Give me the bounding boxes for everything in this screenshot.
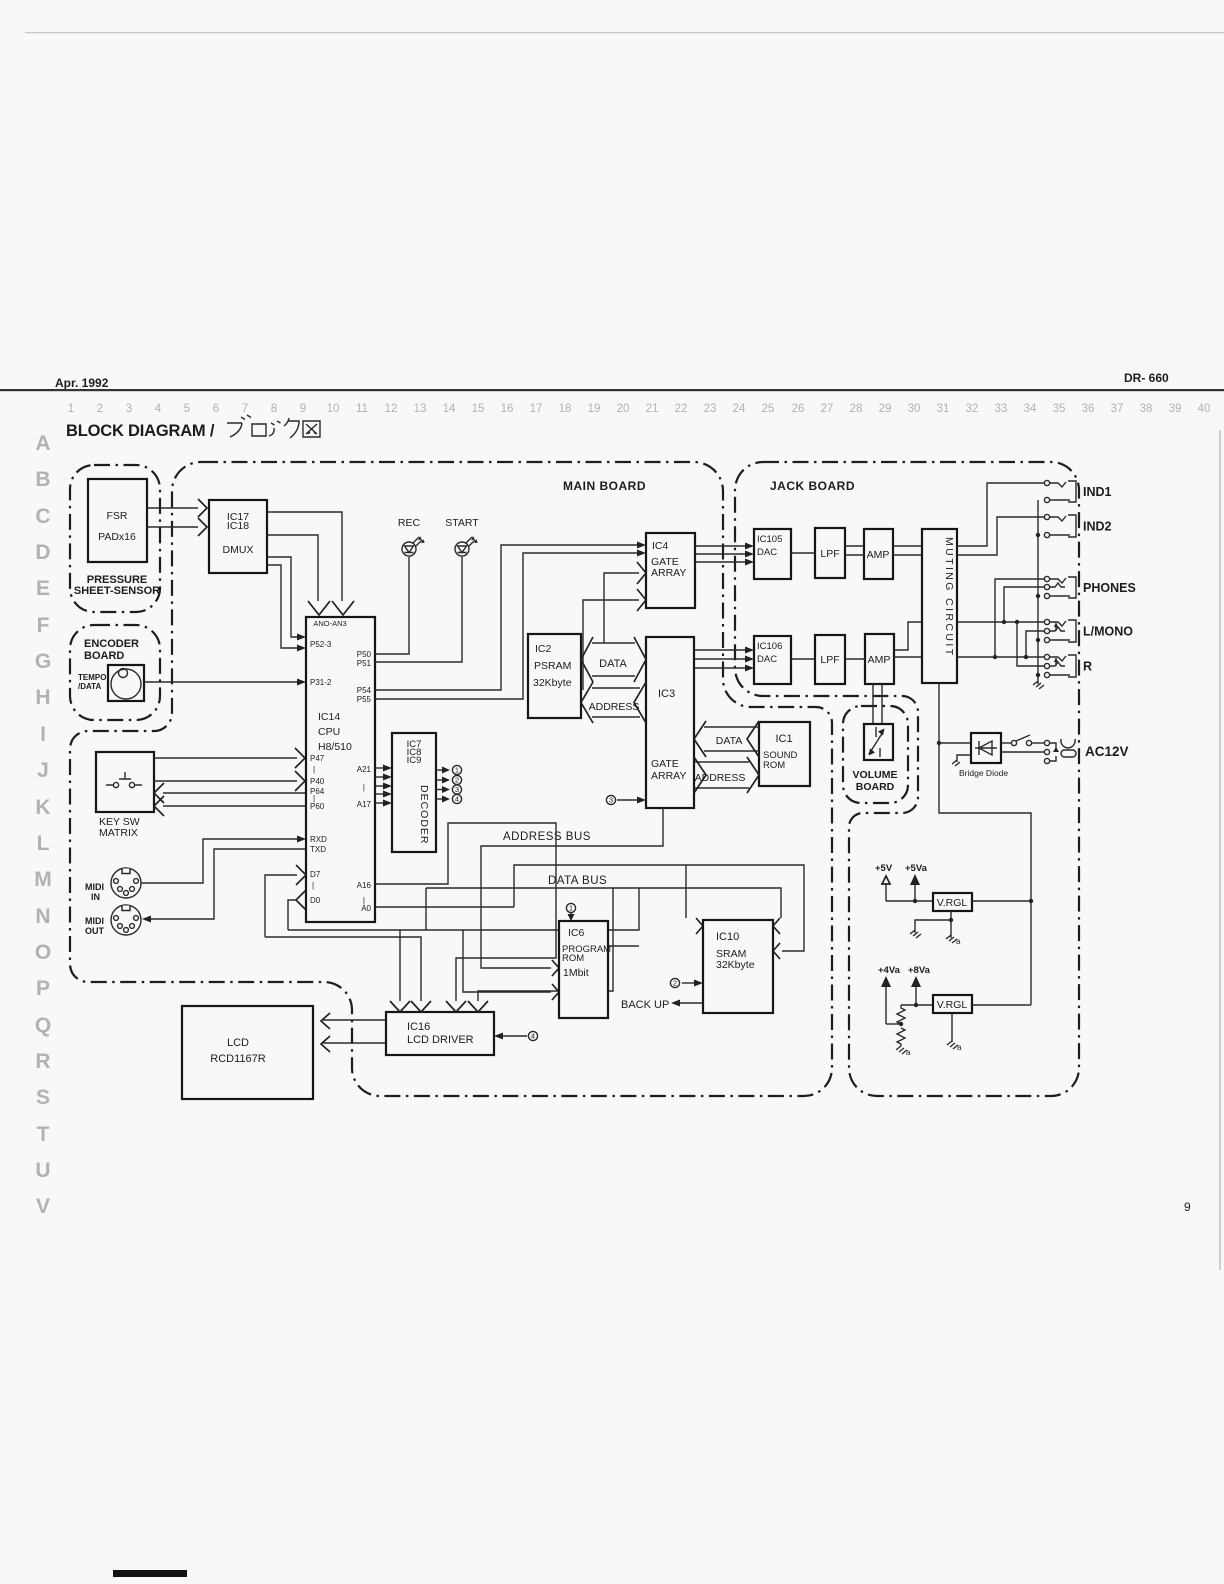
svg-text:35: 35 bbox=[1053, 403, 1066, 415]
wire IC106 to LPF lower bbox=[791, 658, 815, 660]
CPU IC14 H8/510 box bbox=[306, 617, 375, 922]
wire KEYSW to CPU P40 bbox=[154, 780, 297, 782]
AMP lower box bbox=[865, 634, 894, 684]
MUTING CIRCUIT box bbox=[922, 529, 957, 683]
svg-text:IN: IN bbox=[91, 892, 100, 902]
wires AMP lower to volume pot bbox=[873, 684, 882, 724]
svg-text:9: 9 bbox=[1184, 1200, 1191, 1214]
svg-text:ROM: ROM bbox=[562, 953, 584, 964]
board VOLUME BOARD outline bbox=[843, 706, 908, 803]
svg-text:G: G bbox=[35, 650, 51, 673]
svg-text:A16: A16 bbox=[357, 881, 372, 890]
svg-text:ADDRESS BUS: ADDRESS BUS bbox=[503, 831, 591, 843]
wire VRGL1 to AC bus bbox=[972, 900, 1031, 902]
hollow arrow into IC16 left bbox=[390, 1001, 410, 1012]
AC12V jack symbol bbox=[1061, 739, 1075, 748]
wire DMUX out3 to CPU P52-3 bbox=[267, 557, 298, 637]
jack ground bus bbox=[1037, 500, 1039, 684]
wire muting bottom to power section bbox=[939, 683, 1031, 1005]
svg-text:START: START bbox=[445, 517, 479, 529]
node 1 above IC6 bbox=[566, 903, 575, 912]
grid row letters bbox=[34, 432, 52, 1218]
node 2 into IC10 bbox=[670, 978, 679, 987]
svg-text:1: 1 bbox=[569, 904, 573, 913]
bus DATA between IC2 and IC3 bbox=[592, 643, 635, 676]
gate array IC3 box bbox=[646, 637, 694, 808]
svg-text:21: 21 bbox=[646, 403, 659, 415]
svg-text:IC4: IC4 bbox=[652, 540, 669, 552]
volume pot box bbox=[864, 724, 893, 760]
board ENCODER BOARD outline bbox=[70, 625, 160, 720]
wire data wrap D0 bbox=[288, 888, 639, 930]
wire muting to IND1 jack bbox=[957, 483, 1044, 546]
svg-text:P40: P40 bbox=[310, 777, 325, 786]
svg-text:GATE: GATE bbox=[651, 758, 679, 770]
wire IC6 lower chevron feed bbox=[463, 930, 551, 992]
svg-text:4: 4 bbox=[531, 1032, 535, 1041]
chevron into IC10 right upper bbox=[773, 918, 780, 934]
svg-text:LPF: LPF bbox=[820, 548, 839, 560]
svg-text:MAIN BOARD: MAIN BOARD bbox=[563, 479, 646, 493]
svg-text:BLOCK DIAGRAM /: BLOCK DIAGRAM / bbox=[66, 422, 215, 440]
svg-text:B: B bbox=[35, 468, 50, 491]
wire CPU A16 to address bus bbox=[375, 823, 556, 1001]
svg-text:P51: P51 bbox=[357, 659, 372, 668]
SRAM IC10 box bbox=[703, 920, 773, 1013]
wire data bus to IC4 chevron bbox=[604, 573, 639, 643]
CPU D0 chevron bbox=[296, 890, 306, 910]
svg-text:P55: P55 bbox=[357, 695, 372, 704]
encoder TEMPO/DATA knob bbox=[108, 665, 144, 701]
svg-text:/DATA: /DATA bbox=[78, 682, 101, 691]
wire AMP lower to muting direct bbox=[894, 656, 922, 658]
svg-text:L: L bbox=[37, 832, 50, 855]
VRGL2 ground bbox=[951, 1013, 953, 1042]
svg-text:IND1: IND1 bbox=[1083, 485, 1112, 499]
wire phones top feed bbox=[995, 579, 1044, 657]
svg-text:5: 5 bbox=[184, 403, 190, 415]
PSRAM IC2 box bbox=[528, 634, 581, 718]
svg-text:AC12V: AC12V bbox=[1085, 744, 1129, 759]
wires AMP to muting upper bbox=[893, 546, 922, 555]
wire LPF to AMP lower bbox=[845, 658, 865, 660]
svg-text:38: 38 bbox=[1140, 403, 1153, 415]
svg-text:T: T bbox=[37, 1123, 50, 1146]
svg-text:IC3: IC3 bbox=[658, 688, 675, 700]
svg-text:DATA: DATA bbox=[599, 658, 627, 670]
bus IC16 to LCD upper bbox=[323, 1019, 386, 1021]
address bus east branch bbox=[514, 865, 804, 951]
svg-text:R: R bbox=[1083, 660, 1092, 674]
header rule bbox=[0, 389, 1224, 391]
svg-text:P47: P47 bbox=[310, 754, 325, 763]
svg-text:P50: P50 bbox=[357, 650, 372, 659]
svg-text:40: 40 bbox=[1198, 403, 1211, 415]
chassis ground symbol jacks bbox=[1033, 681, 1044, 689]
LCD driver IC16 box bbox=[386, 1012, 494, 1055]
connector MIDI OUT bbox=[111, 905, 141, 935]
svg-text:DATA BUS: DATA BUS bbox=[548, 875, 607, 887]
svg-text:32: 32 bbox=[966, 403, 979, 415]
svg-text:AMP: AMP bbox=[867, 549, 890, 561]
jack PHONES bbox=[1044, 576, 1049, 581]
svg-text:9: 9 bbox=[300, 403, 306, 415]
svg-text:11: 11 bbox=[356, 403, 368, 415]
wire VRGL2 to AC bus bbox=[972, 1004, 1031, 1006]
DAC IC105 box bbox=[754, 529, 791, 579]
svg-text:|: | bbox=[313, 765, 315, 774]
svg-text:PADx16: PADx16 bbox=[98, 531, 136, 543]
bus ADDRESS between IC2 and IC3 bbox=[592, 688, 640, 717]
svg-text:16: 16 bbox=[501, 403, 514, 415]
svg-text:ROM: ROM bbox=[763, 760, 785, 771]
svg-text:TXD: TXD bbox=[310, 845, 326, 854]
svg-text:P: P bbox=[36, 977, 50, 1000]
svg-text:OUT: OUT bbox=[85, 926, 105, 936]
svg-text:L/MONO: L/MONO bbox=[1083, 625, 1133, 639]
key switch symbol bbox=[106, 772, 142, 788]
R switch arrow bbox=[1055, 660, 1057, 666]
svg-text:A21: A21 bbox=[357, 765, 372, 774]
svg-text:BACK UP: BACK UP bbox=[621, 999, 669, 1011]
svg-text:F: F bbox=[37, 614, 50, 637]
svg-text:ARRAY: ARRAY bbox=[651, 770, 686, 782]
svg-text:+4Va: +4Va bbox=[878, 965, 901, 976]
svg-text:a: a bbox=[957, 1043, 962, 1052]
DAC IC106 box bbox=[754, 636, 791, 684]
svg-text:BOARD: BOARD bbox=[856, 781, 895, 793]
bridge diode box bbox=[971, 733, 1001, 763]
LPF lower box bbox=[815, 635, 845, 684]
wire to IC16 left arrow bbox=[399, 930, 401, 1001]
chevron into IC6 address bbox=[552, 960, 559, 976]
svg-text:22: 22 bbox=[675, 403, 688, 415]
wire CPU TXD to MIDI OUT bbox=[149, 849, 306, 919]
svg-text:DR- 660: DR- 660 bbox=[1124, 371, 1169, 385]
svg-text:IC9: IC9 bbox=[407, 755, 422, 766]
svg-text:36: 36 bbox=[1082, 403, 1095, 415]
node 4 into IC16 bbox=[528, 1031, 537, 1040]
svg-text:18: 18 bbox=[559, 403, 572, 415]
svg-text:D7: D7 bbox=[310, 870, 321, 879]
svg-text:LCD: LCD bbox=[227, 1037, 249, 1049]
svg-text:V.RGL: V.RGL bbox=[937, 999, 968, 1011]
wire AMP lower to muting via riser bbox=[894, 622, 922, 650]
svg-text:LCD DRIVER: LCD DRIVER bbox=[407, 1034, 474, 1046]
svg-text:DATA: DATA bbox=[716, 735, 742, 747]
power switch bbox=[1001, 742, 1011, 744]
svg-text:25: 25 bbox=[762, 403, 775, 415]
svg-text:VOLUME: VOLUME bbox=[853, 769, 898, 781]
svg-text:N: N bbox=[35, 905, 50, 928]
svg-text:IC106: IC106 bbox=[757, 641, 782, 652]
svg-text:3: 3 bbox=[126, 403, 132, 415]
svg-text:23: 23 bbox=[704, 403, 717, 415]
svg-text:A17: A17 bbox=[357, 800, 372, 809]
wire muting to R jack bbox=[957, 656, 1044, 658]
svg-text:H8/510: H8/510 bbox=[318, 741, 352, 753]
analog ground a resistor bbox=[896, 1046, 907, 1054]
svg-text:39: 39 bbox=[1169, 403, 1182, 415]
svg-text:7: 7 bbox=[242, 403, 248, 415]
scan top edge line bbox=[25, 32, 1224, 33]
regulator V.RGL 1 bbox=[933, 893, 972, 911]
svg-text:1Mbit: 1Mbit bbox=[563, 967, 589, 979]
wire CPU P60 to KEYSW bbox=[163, 805, 306, 807]
svg-text:30: 30 bbox=[908, 403, 921, 415]
scan edge artifact bbox=[1219, 430, 1221, 1270]
svg-text:ADDRESS: ADDRESS bbox=[695, 772, 746, 784]
svg-text:+8Va: +8Va bbox=[908, 965, 931, 976]
wire L/MONO to R middle normalling bbox=[1017, 622, 1044, 666]
svg-text:26: 26 bbox=[792, 403, 805, 415]
sound ROM IC1 box bbox=[759, 722, 810, 786]
VRGL1 ground network bbox=[915, 911, 951, 938]
svg-text:37: 37 bbox=[1111, 403, 1124, 415]
svg-text:1: 1 bbox=[68, 403, 74, 415]
svg-text:Bridge Diode: Bridge Diode bbox=[959, 768, 1008, 778]
svg-text:IC16: IC16 bbox=[407, 1021, 430, 1033]
svg-text:IC18: IC18 bbox=[227, 520, 249, 532]
hollow arrow into CPU ANO-AN3 left bbox=[308, 601, 330, 615]
decoder outputs to circled numbers bbox=[436, 765, 462, 803]
svg-text:DMUX: DMUX bbox=[223, 544, 254, 556]
svg-text:IC2: IC2 bbox=[535, 643, 552, 655]
bus DATA between IC3 and IC1 bbox=[704, 727, 759, 751]
svg-text:2: 2 bbox=[673, 979, 677, 988]
wire L/MONO middle feed bbox=[1026, 631, 1044, 657]
svg-text:P54: P54 bbox=[357, 686, 372, 695]
svg-text:6: 6 bbox=[213, 403, 219, 415]
svg-text:28: 28 bbox=[850, 403, 863, 415]
AMP upper box bbox=[864, 529, 893, 579]
wire DMUX out4 to CPU P52-3 bbox=[267, 565, 298, 648]
AC line lower bbox=[1001, 751, 1044, 753]
svg-text:33: 33 bbox=[995, 403, 1008, 415]
wire IC6 data to bus bbox=[608, 945, 639, 947]
svg-text:C: C bbox=[35, 505, 50, 528]
svg-text:ANO-AN3: ANO-AN3 bbox=[313, 619, 346, 628]
wire IC105 to LPF bbox=[791, 552, 815, 554]
wires IC3 to IC106 bbox=[694, 649, 745, 651]
wire CPU P51 to START LED bbox=[375, 557, 462, 662]
svg-text:A: A bbox=[35, 432, 50, 455]
wire to VRGL2 bbox=[901, 1004, 933, 1006]
svg-text:14: 14 bbox=[443, 403, 456, 415]
CPU D7 chevron input bbox=[296, 865, 306, 885]
footer bar bbox=[113, 1570, 187, 1577]
hollow arrow into IC16 right bbox=[446, 1001, 466, 1012]
wire encoder to CPU P31-2 bbox=[144, 681, 298, 683]
svg-text:34: 34 bbox=[1024, 403, 1037, 415]
board JACK BOARD and power section outline bbox=[735, 462, 1079, 1096]
svg-text:O: O bbox=[35, 941, 51, 964]
wire data wrap D7 bbox=[265, 937, 421, 1001]
svg-text:A0: A0 bbox=[361, 904, 371, 913]
wire phones middle contact bbox=[1004, 587, 1044, 622]
KEY SW MATRIX box bbox=[96, 752, 154, 812]
regulator V.RGL 2 bbox=[933, 995, 972, 1013]
svg-text:DAC: DAC bbox=[757, 547, 777, 558]
svg-text:U: U bbox=[35, 1159, 50, 1182]
svg-text:17: 17 bbox=[530, 403, 543, 415]
svg-text:LPF: LPF bbox=[820, 654, 839, 666]
FSR PADx16 sensor box bbox=[88, 479, 147, 562]
bridge ground stub bbox=[957, 755, 971, 762]
jack L/MONO bbox=[1044, 619, 1049, 624]
svg-text:MIDI: MIDI bbox=[85, 882, 104, 892]
svg-text:4: 4 bbox=[155, 403, 162, 415]
hollow arrow into CPU ANO-AN3 right bbox=[332, 601, 354, 615]
svg-text:P60: P60 bbox=[310, 802, 325, 811]
svg-text:V.RGL: V.RGL bbox=[937, 897, 968, 909]
svg-text:29: 29 bbox=[879, 403, 892, 415]
wire MIDI IN to CPU RXD bbox=[141, 839, 298, 883]
decoder IC7 IC8 IC9 box bbox=[392, 733, 436, 852]
svg-text:DAC: DAC bbox=[757, 654, 777, 665]
svg-text:|: | bbox=[363, 783, 365, 792]
analog ground a bbox=[946, 935, 957, 943]
svg-text:12: 12 bbox=[385, 403, 398, 415]
svg-text:PSRAM: PSRAM bbox=[534, 660, 571, 672]
svg-text:CPU: CPU bbox=[318, 726, 340, 738]
svg-text:IC6: IC6 bbox=[568, 927, 585, 939]
wire muting to IND2 jack bbox=[957, 517, 1044, 555]
svg-text:J: J bbox=[37, 759, 49, 782]
svg-text:MIDI: MIDI bbox=[85, 916, 104, 926]
svg-text:4: 4 bbox=[455, 795, 459, 804]
wire FSR to DMUX line1 bbox=[147, 507, 198, 509]
LCD RCD1167R box bbox=[182, 1006, 313, 1099]
wire to VRGL1 bbox=[886, 900, 933, 902]
svg-text:R: R bbox=[35, 1050, 50, 1073]
board PRESSURE SHEET-SENSOR outline bbox=[70, 465, 160, 612]
svg-text:D0: D0 bbox=[310, 896, 321, 905]
svg-text:ENCODER: ENCODER bbox=[84, 638, 139, 650]
svg-text:27: 27 bbox=[821, 403, 834, 415]
wires CPU A21-A17 to decoder bbox=[375, 765, 392, 807]
svg-text:IC10: IC10 bbox=[716, 931, 739, 943]
svg-text:PHONES: PHONES bbox=[1083, 581, 1136, 595]
LPF upper box bbox=[815, 528, 845, 578]
data bus trunk bbox=[426, 888, 781, 918]
wire DMUX out1 to CPU analog in bbox=[267, 512, 342, 601]
svg-text:19: 19 bbox=[588, 403, 601, 415]
chevron into IC6 lower bbox=[552, 984, 559, 1000]
chassis ground bbox=[910, 930, 921, 938]
svg-text:|: | bbox=[312, 881, 314, 890]
svg-text:24: 24 bbox=[733, 403, 746, 415]
wire data bus to IC16 bbox=[478, 888, 613, 1001]
node 3 into IC3 bbox=[606, 795, 615, 804]
AC contacts bbox=[1044, 740, 1049, 745]
grid column numbers bbox=[68, 403, 1211, 415]
svg-text:IC105: IC105 bbox=[757, 534, 782, 545]
svg-text:3: 3 bbox=[609, 796, 613, 805]
wire CPU P55 to IC4 bbox=[375, 553, 637, 699]
svg-text:+5Va: +5Va bbox=[905, 863, 928, 874]
svg-text:S: S bbox=[36, 1086, 50, 1109]
program ROM IC6 box bbox=[559, 921, 608, 1018]
wire DMUX out2 to CPU analog in bbox=[267, 535, 318, 601]
bus ADDRESS between IC3 and IC1 bbox=[694, 762, 749, 788]
svg-text:3: 3 bbox=[455, 785, 459, 794]
svg-text:RCD1167R: RCD1167R bbox=[210, 1053, 265, 1065]
chevron into IC10 left bbox=[696, 918, 703, 934]
gate array IC4 box bbox=[646, 533, 695, 608]
jack R bbox=[1044, 654, 1049, 659]
wires IC4 to IC105 bbox=[695, 545, 745, 547]
chevron into IC10 right lower bbox=[773, 943, 780, 959]
svg-text:I: I bbox=[40, 723, 46, 746]
address bus trunk bbox=[481, 808, 663, 968]
svg-text:AMP: AMP bbox=[868, 654, 891, 666]
svg-text:M: M bbox=[34, 868, 52, 891]
svg-text:K: K bbox=[35, 796, 50, 819]
bus IC16 to LCD lower bbox=[323, 1042, 386, 1044]
title japanese text bbox=[227, 415, 320, 438]
connector MIDI IN bbox=[111, 868, 141, 898]
wire FSR to DMUX line2 bbox=[147, 526, 198, 528]
svg-text:32Kbyte: 32Kbyte bbox=[533, 677, 572, 689]
wire bridge to muting bus bbox=[939, 742, 971, 744]
svg-text:a: a bbox=[956, 937, 961, 946]
wire CPU P54 to IC4 bbox=[375, 545, 637, 690]
svg-text:2: 2 bbox=[455, 776, 459, 785]
svg-text:IC14: IC14 bbox=[318, 711, 340, 723]
svg-text:IC1: IC1 bbox=[775, 733, 792, 745]
svg-text:a: a bbox=[906, 1048, 911, 1057]
svg-text:MATRIX: MATRIX bbox=[99, 827, 138, 839]
resistor divider bbox=[897, 1005, 905, 1046]
wire CPU A0 bbox=[375, 906, 514, 908]
svg-text:TEMPO: TEMPO bbox=[78, 673, 106, 682]
svg-text:SHEET-SENSOR: SHEET-SENSOR bbox=[74, 585, 160, 597]
svg-text:Q: Q bbox=[35, 1014, 51, 1037]
svg-text:1: 1 bbox=[455, 766, 459, 775]
svg-text:31: 31 bbox=[937, 403, 950, 415]
svg-text:P52-3: P52-3 bbox=[310, 640, 332, 649]
wire CPU P50 to REC LED bbox=[375, 557, 409, 654]
svg-text:+5V: +5V bbox=[875, 863, 893, 874]
wire KEYSW to CPU P47 bbox=[154, 757, 297, 759]
svg-text:JACK BOARD: JACK BOARD bbox=[770, 479, 855, 493]
svg-text:32Kbyte: 32Kbyte bbox=[716, 959, 755, 971]
multiplexer IC17 IC18 DMUX box bbox=[209, 500, 267, 573]
svg-text:ADDRESS: ADDRESS bbox=[589, 701, 640, 713]
svg-text:ARRAY: ARRAY bbox=[651, 567, 686, 579]
svg-text:IND2: IND2 bbox=[1083, 520, 1112, 534]
svg-text:RXD: RXD bbox=[310, 835, 327, 844]
svg-text:V: V bbox=[36, 1195, 50, 1218]
svg-text:8: 8 bbox=[271, 403, 277, 415]
jack IND1 bbox=[1044, 480, 1049, 485]
svg-text:P31-2: P31-2 bbox=[310, 678, 332, 687]
svg-text:BOARD: BOARD bbox=[84, 650, 124, 662]
svg-text:13: 13 bbox=[414, 403, 427, 415]
svg-text:Apr. 1992: Apr. 1992 bbox=[55, 376, 109, 390]
svg-text:15: 15 bbox=[472, 403, 485, 415]
svg-text:REC: REC bbox=[398, 517, 421, 529]
svg-text:10: 10 bbox=[327, 403, 340, 415]
svg-text:20: 20 bbox=[617, 403, 630, 415]
wire IC10 left chevron feed bbox=[685, 865, 687, 918]
svg-text:D: D bbox=[35, 541, 50, 564]
wire CPU P64 to KEYSW bbox=[163, 792, 306, 794]
svg-text:MUTING CIRCUIT: MUTING CIRCUIT bbox=[943, 537, 955, 658]
jack IND2 bbox=[1044, 514, 1049, 519]
svg-text:2: 2 bbox=[97, 403, 103, 415]
